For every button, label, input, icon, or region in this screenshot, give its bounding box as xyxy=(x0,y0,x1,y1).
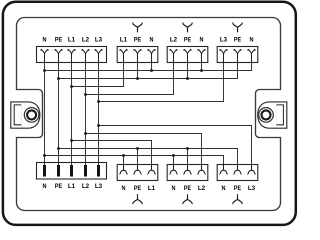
left latch ring hole xyxy=(27,110,36,119)
svg-text:PE: PE xyxy=(234,37,242,44)
plug symbol above top outlet 2 xyxy=(183,23,192,33)
clamp contact L3 bottom outlet 3 xyxy=(247,165,255,175)
svg-text:L1: L1 xyxy=(68,37,75,44)
wire PE bottom distribution xyxy=(59,149,238,165)
clamp contact PE feed xyxy=(55,50,62,63)
terminal block X2 bottom output N PE L1 L2 L3 xyxy=(37,163,107,180)
plug symbol below bottom outlet 1 xyxy=(133,194,142,204)
blade contact N output xyxy=(43,165,46,177)
wire socket2 N drop xyxy=(201,63,203,71)
wire L1 to socket1 xyxy=(72,63,124,87)
terminal block X1 top feed N PE L1 L2 L3 xyxy=(37,47,107,63)
clamp contact L2 top outlet 2 xyxy=(170,50,177,63)
svg-text:N: N xyxy=(250,37,254,44)
clamp contact L1 top outlet 1 xyxy=(120,50,127,63)
junction bottom outlet 1 PE tap xyxy=(136,147,139,150)
wire bottom socket2 PE riser xyxy=(187,149,189,165)
junction bottom outlet 1 N tap xyxy=(122,154,125,157)
svg-text:L2: L2 xyxy=(82,37,89,44)
right latch ring hole xyxy=(262,110,271,119)
svg-text:N: N xyxy=(150,37,154,44)
junction L1 bus / top L1 tap xyxy=(70,85,73,88)
svg-text:PE: PE xyxy=(184,185,192,192)
wire L3 to socket3 xyxy=(99,63,224,102)
inner enclosure wall with latch bays xyxy=(17,18,281,211)
junction PE bus / bottom PE feed xyxy=(57,147,60,150)
svg-text:N: N xyxy=(172,185,176,192)
right latch bracket xyxy=(276,102,286,128)
svg-text:N: N xyxy=(43,183,47,190)
junction top outlet 1 N tap xyxy=(150,69,153,72)
clamp contact L1 feed xyxy=(68,50,75,63)
clamp contact L1 bottom outlet 1 xyxy=(147,165,155,175)
wire L3 bus vertical xyxy=(98,63,100,166)
top outlet block 3 (L3 PE N) xyxy=(217,47,258,63)
clamp contact N bottom outlet 3 xyxy=(219,165,227,175)
junction bottom outlet 2 PE tap xyxy=(186,147,189,150)
junction PE bus / top PE feed xyxy=(57,77,60,80)
junction L2 bus / top L2 tap xyxy=(84,93,87,96)
left latch body xyxy=(21,102,40,128)
clamp contact L3 top outlet 3 xyxy=(220,50,227,63)
bottom outlet block 2 (N PE L2) xyxy=(167,165,208,181)
junction L3 bus / top L3 tap xyxy=(97,100,100,103)
clamp contact PE bottom outlet 1 xyxy=(133,165,141,175)
wire socket1 N drop xyxy=(151,63,153,71)
blade contact L3 output xyxy=(97,165,100,177)
wire N bottom distribution xyxy=(45,156,224,165)
svg-text:L3: L3 xyxy=(220,37,227,44)
junction top outlet 1 PE tap xyxy=(136,77,139,80)
clamp contact PE top outlet 1 xyxy=(134,50,141,63)
clamp contact N feed xyxy=(41,50,48,63)
svg-text:L2: L2 xyxy=(82,183,89,190)
bottom outlet block 3 (N PE L3) xyxy=(217,165,258,181)
plug symbol below bottom outlet 3 xyxy=(233,194,242,204)
svg-text:L3: L3 xyxy=(248,185,255,192)
right latch ring outer xyxy=(259,108,274,123)
clamp contact PE top outlet 2 xyxy=(184,50,191,63)
svg-text:L1: L1 xyxy=(68,183,75,190)
junction top outlet 2 N tap xyxy=(200,69,203,72)
wire L3 to bottom socket3 xyxy=(99,126,252,165)
svg-text:L1: L1 xyxy=(148,185,155,192)
plug symbol above top outlet 3 xyxy=(233,23,242,33)
svg-text:PE: PE xyxy=(184,37,192,44)
wire socket2 PE drop xyxy=(187,63,189,79)
svg-text:PE: PE xyxy=(134,37,142,44)
clamp contact PE top outlet 3 xyxy=(234,50,241,63)
svg-text:N: N xyxy=(43,37,47,44)
junction L1 bus / bottom L1 tap xyxy=(70,139,73,142)
top outlet block 1 (L1 PE N) xyxy=(117,47,158,63)
clamp contact N bottom outlet 2 xyxy=(169,165,177,175)
plug symbol above top outlet 1 xyxy=(133,23,142,33)
svg-text:L2: L2 xyxy=(170,37,177,44)
wire L1 bus vertical xyxy=(71,63,73,166)
svg-text:PE: PE xyxy=(234,185,242,192)
svg-text:N: N xyxy=(200,37,204,44)
wire L2 bus vertical xyxy=(85,63,87,166)
wire L2 to bottom socket2 xyxy=(86,134,202,165)
wire N top distribution xyxy=(45,63,252,71)
junction top outlet 2 PE tap xyxy=(186,77,189,80)
wire bottom socket2 N riser xyxy=(173,156,175,165)
clamp contact L3 feed xyxy=(95,50,102,63)
svg-text:PE: PE xyxy=(55,37,63,44)
junction L2 bus / bottom L2 tap xyxy=(84,132,87,135)
left latch bracket xyxy=(11,102,21,128)
junction N bus / top N feed xyxy=(43,69,46,72)
clamp contact N top outlet 2 xyxy=(198,50,205,63)
svg-text:L2: L2 xyxy=(198,185,205,192)
plug symbol below bottom outlet 2 xyxy=(183,194,192,204)
svg-text:N: N xyxy=(122,185,126,192)
bottom outlet block 1 (N PE L1) xyxy=(117,165,158,181)
blade contact L2 output xyxy=(84,165,87,177)
clamp contact N top outlet 3 xyxy=(248,50,255,63)
top outlet block 2 (L2 PE N) xyxy=(167,47,208,63)
clamp contact N bottom outlet 1 xyxy=(119,165,127,175)
wire PE top distribution xyxy=(59,63,238,79)
wire L1 to bottom socket1 xyxy=(72,141,152,165)
svg-text:N: N xyxy=(222,185,226,192)
wire L2 to socket2 xyxy=(86,63,174,95)
left latch ring outer xyxy=(24,108,39,123)
svg-text:L3: L3 xyxy=(95,183,102,190)
wire bottom socket1 N riser xyxy=(123,156,125,165)
svg-text:L3: L3 xyxy=(95,37,102,44)
blade contact PE output xyxy=(57,165,60,177)
junction bottom outlet 2 N tap xyxy=(172,154,175,157)
wire PE bus vertical xyxy=(58,63,60,166)
svg-text:PE: PE xyxy=(55,183,63,190)
svg-text:PE: PE xyxy=(134,185,142,192)
clamp contact N top outlet 1 xyxy=(148,50,155,63)
junction L3 bus / bottom L3 tap xyxy=(97,124,100,127)
wire N bus vertical xyxy=(44,63,46,166)
clamp contact PE bottom outlet 2 xyxy=(183,165,191,175)
wire socket1 PE drop xyxy=(137,63,139,79)
junction N bus / bottom N feed xyxy=(43,154,46,157)
svg-text:L1: L1 xyxy=(120,37,127,44)
right latch body xyxy=(258,102,277,128)
wire bottom socket1 PE riser xyxy=(137,149,139,165)
clamp contact L2 feed xyxy=(82,50,89,63)
clamp contact L2 bottom outlet 2 xyxy=(197,165,205,175)
blade contact L1 output xyxy=(70,165,73,177)
clamp contact PE bottom outlet 3 xyxy=(233,165,241,175)
